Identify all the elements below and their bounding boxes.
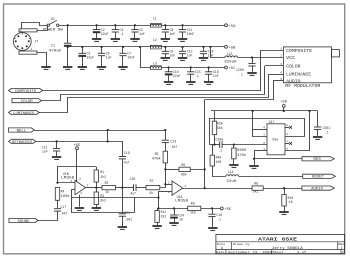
- net flag SOUND: [9, 218, 38, 224]
- junction C14: [202, 46, 204, 48]
- capacitor C14 1nF: [200, 51, 207, 53]
- wire rail1 left: [59, 25, 150, 27]
- capacitor C301 .1: [314, 127, 321, 129]
- junction R10: [283, 187, 285, 189]
- svg-text:.1: .1: [120, 32, 124, 36]
- wire riser to bias line: [134, 198, 136, 214]
- wire to RF pin3: [265, 65, 284, 67]
- svg-text:U17: U17: [269, 120, 275, 124]
- junction C3: [81, 46, 83, 48]
- wire C200 lower lead: [252, 66, 254, 72]
- wire 555 pin6 loop: [210, 118, 305, 120]
- capacitor C11 10nF: [179, 30, 186, 32]
- capacitor C19 4u7: [119, 157, 126, 159]
- svg-text:AUDIO: AUDIO: [311, 188, 323, 192]
- svg-text:COLOR: COLOR: [286, 65, 301, 70]
- wire to U1B pin6: [58, 182, 76, 184]
- junction C13: [181, 46, 183, 48]
- ground (C24): [169, 223, 178, 225]
- wire C2 lower lead: [96, 32, 98, 38]
- svg-text:4u7: 4u7: [130, 192, 136, 196]
- wire to U1B pin5: [71, 189, 75, 191]
- wire C4 lower lead: [115, 32, 117, 38]
- svg-text:1nF: 1nF: [139, 32, 145, 36]
- svg-text:1k5: 1k5: [190, 210, 196, 214]
- svg-text:C200: C200: [236, 68, 244, 72]
- junction pin3 drop/bias rail: [157, 207, 159, 209]
- wire C10 lower lead: [168, 74, 170, 82]
- svg-text:5k1: 5k1: [253, 190, 259, 194]
- wire R300 top lead: [233, 145, 235, 148]
- ground (C8): [161, 39, 170, 41]
- wire R11 bottom lead: [157, 222, 159, 225]
- svg-text:.047: .047: [60, 212, 68, 216]
- wire U1A pin3 drop: [158, 191, 160, 208]
- ground (C21): [118, 227, 127, 229]
- inductor L2: [150, 45, 161, 49]
- svg-text:AUDIO: AUDIO: [286, 80, 301, 85]
- svg-text:R10: R10: [288, 196, 294, 200]
- svg-text:8 of: 8 of: [297, 250, 306, 254]
- wire C24 upper lead: [174, 208, 176, 214]
- junction BELL tie: [107, 129, 109, 131]
- capacitor C9 1nF: [162, 51, 169, 53]
- svg-text:COMPOSITE: COMPOSITE: [15, 90, 37, 94]
- svg-text:2: 2: [168, 181, 170, 184]
- svg-text:R6: R6: [181, 163, 185, 167]
- junction C4: [114, 24, 116, 26]
- wire bias rail left: [157, 208, 188, 210]
- ground (C200): [247, 73, 256, 75]
- wire C5 upper lead: [134, 25, 136, 29]
- svg-text:1nF: 1nF: [170, 32, 176, 36]
- wire C301 upper lead: [317, 111, 319, 127]
- wire audio riser: [204, 100, 206, 170]
- wire C15 upper lead: [190, 68, 192, 72]
- svg-text:LUMINANCE: LUMINANCE: [13, 112, 35, 116]
- wire node to C20: [122, 187, 133, 189]
- resistor R7 2k: [146, 185, 160, 189]
- wire C14 lower lead: [203, 54, 205, 57]
- junction BELL/C23: [164, 129, 166, 131]
- wire C8 lower lead: [165, 32, 167, 38]
- resistor R40 100: [210, 155, 214, 166]
- wire rail3 right: [161, 67, 224, 69]
- wire R7 to U1A pin2: [160, 184, 166, 187]
- wire C11 upper lead: [182, 25, 184, 29]
- svg-text:R7: R7: [150, 179, 154, 183]
- wire C3 lower lead: [82, 56, 84, 67]
- wire +5E to U1B pin8: [76, 150, 78, 182]
- wire C12 upper lead: [56, 141, 58, 148]
- junction C6: [100, 46, 102, 48]
- wire C6 upper lead: [101, 47, 103, 53]
- svg-text:1uF: 1uF: [106, 56, 112, 60]
- wire R10 bottom lead: [284, 206, 286, 212]
- svg-text:Date: Date: [216, 251, 224, 254]
- capacitor C1 470uF: [64, 43, 72, 46]
- ground (C2): [92, 39, 101, 41]
- svg-text:Drawn by: Drawn by: [233, 242, 250, 246]
- wire R3 bottom lead: [96, 205, 98, 208]
- svg-text:820uH: 820uH: [224, 60, 236, 64]
- wire 555 pin1 to ground: [254, 151, 256, 165]
- svg-text:C301: C301: [323, 126, 331, 130]
- wire C17 to SOUND: [38, 211, 57, 220]
- svg-text:L1: L1: [153, 16, 157, 20]
- power node +5E (U1B): [74, 144, 82, 150]
- op-amp U1B triangle: [75, 180, 86, 194]
- power node +5C: [225, 66, 237, 71]
- resistor R5 470k: [163, 151, 167, 163]
- svg-text:R1: R1: [100, 170, 104, 174]
- svg-text:.047: .047: [170, 145, 178, 149]
- wire node to C300: [210, 144, 220, 146]
- junction pin1/RES: [253, 158, 255, 160]
- wire rail2 right: [161, 46, 224, 48]
- wire R8 to AUDIO flag: [263, 188, 302, 190]
- svg-text:1: 1: [184, 185, 186, 188]
- svg-text:22uH: 22uH: [226, 179, 236, 183]
- ground (C16): [208, 228, 217, 230]
- wire node to C21: [122, 188, 124, 214]
- junction C5: [134, 24, 136, 26]
- svg-text:+5E: +5E: [224, 208, 232, 212]
- wire BELL/KEYBAUDIO tie: [107, 130, 109, 141]
- svg-text:COLOR: COLOR: [21, 100, 34, 104]
- svg-text:ATARI 65XE: ATARI 65XE: [258, 239, 298, 243]
- power node +5E (bias): [220, 207, 232, 212]
- wire C3 upper lead: [82, 47, 84, 53]
- svg-text:LUMINANCE: LUMINANCE: [286, 73, 311, 78]
- wire BELL line: [34, 130, 165, 132]
- svg-text:Sheet: Sheet: [273, 250, 284, 254]
- svg-text:100: 100: [216, 160, 222, 164]
- svg-text:100k: 100k: [61, 194, 70, 198]
- svg-text:.1: .1: [239, 73, 243, 77]
- junction VCC/C200: [251, 56, 253, 58]
- svg-text:L3: L3: [153, 61, 157, 65]
- wire C21 lower lead: [122, 216, 124, 226]
- wire 555 pin8 to rail: [285, 111, 310, 151]
- switch S1 POWER SW: [47, 20, 59, 26]
- wire R1 bottom lead: [96, 182, 98, 188]
- junction rail2/VCC drop: [209, 46, 211, 48]
- wire 555 pin1: [254, 150, 267, 152]
- capacitor C8 1nF: [162, 30, 169, 32]
- svg-text:56k: 56k: [217, 126, 223, 130]
- wire C200 upper lead: [252, 58, 254, 64]
- resistor R39 56k: [212, 121, 216, 134]
- svg-text:C17: C17: [60, 205, 66, 209]
- capacitor C12 1uF: [53, 149, 60, 151]
- svg-text:1nF: 1nF: [187, 54, 193, 58]
- junction U1B output node: [95, 187, 97, 189]
- wire C20 to R7: [136, 187, 146, 189]
- capacitor C13 1nF: [179, 51, 186, 53]
- wire to RF pin1: [260, 50, 283, 52]
- svg-text:2: 2: [280, 55, 282, 58]
- capacitor C21 .001: [119, 214, 126, 216]
- junction C11: [181, 24, 183, 26]
- no-connect pin7: [289, 142, 292, 145]
- junction KEYBAUDIO/C12: [56, 140, 58, 142]
- svg-text:1k: 1k: [105, 190, 109, 194]
- wire C301 lower lead: [317, 129, 319, 136]
- svg-text:R2: R2: [105, 181, 109, 185]
- svg-text:L13: L13: [227, 52, 233, 56]
- svg-text:+5A: +5A: [229, 25, 237, 29]
- wire C14 upper lead: [203, 47, 205, 51]
- svg-text:+5D: +5D: [280, 101, 288, 105]
- inductor L13: [225, 56, 238, 58]
- connector J7 pin 1 tab: [19, 29, 37, 32]
- svg-text:S1: S1: [51, 18, 55, 22]
- svg-text:10: 10: [179, 218, 183, 222]
- wire 555 pin3 tie: [253, 111, 268, 137]
- svg-text:C1: C1: [51, 45, 55, 49]
- wire COMPOSITE to RF pin1: [43, 50, 261, 90]
- wire R2 to node: [116, 187, 123, 189]
- wire U1A output: [183, 188, 205, 190]
- svg-text:RESET: RESET: [312, 176, 325, 180]
- svg-text:1: 1: [280, 47, 282, 50]
- wire R1 top lead: [96, 167, 98, 170]
- svg-text:6: 6: [286, 133, 288, 136]
- resistor R11 2k2: [155, 211, 159, 223]
- wire R40 top lead: [212, 145, 214, 156]
- wire LUMINANCE to RF pin4: [39, 74, 268, 112]
- wire C13 upper lead: [182, 47, 184, 51]
- junction R39/node: [213, 144, 215, 146]
- net flag COLOR: [12, 99, 41, 105]
- svg-text:22uF: 22uF: [87, 56, 95, 60]
- svg-text:RF MODULATOR: RF MODULATOR: [285, 85, 321, 89]
- svg-text:R300: R300: [237, 148, 246, 152]
- svg-text:8: 8: [286, 147, 288, 150]
- RF modulator U-box: [283, 47, 331, 83]
- svg-text:555: 555: [272, 138, 278, 142]
- svg-text:+5E: +5E: [74, 144, 82, 148]
- resistor R2 1k: [102, 185, 116, 189]
- ground (R300): [229, 165, 238, 167]
- ground (C3): [78, 67, 87, 69]
- svg-text:10nF: 10nF: [187, 32, 195, 36]
- junction KEYBAUDIO tie: [107, 140, 109, 142]
- wire 555 pin6 to loop: [285, 118, 305, 137]
- wire R39 bottom lead: [214, 135, 216, 145]
- junction C18: [208, 66, 210, 68]
- ground (R11): [152, 226, 161, 228]
- svg-text:2k: 2k: [149, 191, 153, 195]
- wire C5 lower lead: [134, 32, 136, 38]
- wire R39 top lead: [214, 111, 216, 121]
- junction C8: [164, 24, 166, 26]
- junction R5/R6 feedback: [164, 168, 166, 170]
- svg-text:L2: L2: [153, 38, 157, 42]
- wire to RES flag: [254, 158, 302, 160]
- inductor L3: [150, 66, 161, 70]
- ground (555 pin1): [249, 166, 258, 168]
- wire C9 upper lead: [165, 47, 167, 51]
- svg-text:470k: 470k: [152, 157, 161, 161]
- wire from J7 pin1 loop: [22, 23, 48, 29]
- wire KEYBAUDIO to C19: [108, 142, 123, 157]
- resistor R6 68k: [179, 167, 190, 171]
- ground (J7 pin2): [41, 67, 50, 69]
- svg-text:C19: C19: [124, 151, 130, 155]
- ground (C12): [52, 157, 61, 159]
- junction C7: [122, 46, 124, 48]
- wire audio to RF pin5: [205, 81, 274, 100]
- wire from J7 pin1 to switch: [37, 25, 48, 30]
- wire R10 top lead: [284, 188, 286, 194]
- svg-text:.1: .1: [195, 74, 199, 78]
- net flag BELL: [9, 128, 35, 133]
- wire R300 bottom lead: [233, 159, 235, 164]
- wire C16 lower lead: [212, 217, 214, 227]
- wire L14 to RESET flag: [239, 176, 303, 178]
- wire C16 upper lead: [212, 208, 214, 213]
- capacitor C24 10: [170, 215, 178, 218]
- wire 555 pin7 stub: [285, 143, 289, 145]
- svg-text:A: A: [221, 246, 223, 250]
- wire C24 lower lead: [174, 218, 176, 222]
- svg-text:C23: C23: [170, 139, 176, 143]
- svg-text:LM358: LM358: [175, 199, 188, 203]
- ground (C11): [178, 39, 187, 41]
- svg-text:R8: R8: [254, 181, 258, 185]
- ground (C4): [111, 39, 120, 41]
- svg-text:1nF: 1nF: [170, 54, 176, 58]
- op-amp U1A triangle: [172, 181, 183, 195]
- svg-text:POWER SW: POWER SW: [43, 28, 63, 32]
- svg-text:.1: .1: [217, 217, 221, 221]
- svg-text:BELL: BELL: [17, 129, 27, 133]
- connector J7 (DIN power jack): [13, 33, 31, 51]
- junction U1B pin6 node: [56, 182, 58, 184]
- svg-text:9: 9: [342, 251, 344, 254]
- svg-text:7: 7: [87, 184, 89, 187]
- wire to U1A pin2: [165, 184, 172, 186]
- junction rail/pin8 riser: [308, 110, 310, 112]
- wire feedback right: [190, 170, 204, 189]
- svg-text:C16: C16: [216, 213, 222, 217]
- capacitor C4 .1: [112, 30, 119, 32]
- capacitor C6 1uF: [98, 53, 105, 55]
- RF output tab: [332, 50, 340, 57]
- wire L13 to RF modulator VCC: [238, 57, 284, 59]
- wire R5 to U1A pin2 node: [165, 163, 167, 184]
- wire from J7 pin2 to ground: [37, 53, 47, 67]
- wire C300 to 555 pin2: [222, 144, 267, 146]
- IC U17 555 timer: [267, 124, 285, 155]
- svg-text:2k2: 2k2: [100, 175, 106, 179]
- svg-text:.001: .001: [125, 217, 133, 221]
- svg-text:SOUND: SOUND: [18, 220, 30, 224]
- svg-text:R40: R40: [216, 155, 222, 159]
- junction rail1/C1: [67, 24, 69, 26]
- junction C16/bias rail: [211, 207, 213, 209]
- junction C1 column / rail2: [67, 46, 69, 48]
- capacitor C18 1nF: [205, 72, 212, 74]
- svg-text:R11: R11: [161, 210, 167, 214]
- wire C4 upper lead: [115, 25, 117, 29]
- wire R40 to L14: [213, 166, 226, 177]
- wire C23 to R5: [165, 143, 167, 152]
- junction C24/bias rail: [173, 207, 175, 209]
- wire C19 to node: [122, 159, 124, 188]
- wire bias line: [71, 197, 158, 199]
- ground (C9): [161, 58, 170, 60]
- capacitor C16 .1: [208, 214, 215, 216]
- svg-text:7: 7: [286, 140, 288, 143]
- ground (C301): [313, 137, 322, 139]
- resistor R9 1k5: [188, 206, 201, 210]
- wire R3 top lead: [96, 188, 98, 192]
- junction R2/C19/C20/C21: [121, 187, 123, 189]
- svg-text:4: 4: [80, 192, 82, 195]
- capacitor C300 .1: [220, 141, 222, 148]
- svg-text:R4: R4: [61, 189, 65, 193]
- inductor L1: [150, 24, 161, 28]
- wire C1 column lower: [67, 46, 69, 67]
- svg-text:C20: C20: [130, 177, 136, 181]
- ground (C14): [199, 58, 208, 60]
- svg-text:22uF: 22uF: [101, 32, 109, 36]
- power node +5A: [225, 24, 237, 29]
- junction rail2/riser: [139, 46, 141, 48]
- wire riser rail2 to rail3: [141, 47, 151, 68]
- svg-text:22uF: 22uF: [173, 74, 181, 78]
- svg-text:5: 5: [286, 124, 288, 127]
- capacitor C3 22uF: [79, 53, 87, 56]
- svg-text:.1: .1: [325, 131, 329, 135]
- capacitor C10 22uF: [165, 72, 173, 75]
- capacitor C2 22uF: [93, 30, 101, 33]
- ground (C7): [118, 67, 127, 69]
- junction C15: [190, 66, 192, 68]
- svg-text:2k2: 2k2: [161, 215, 167, 219]
- junction output/audio riser: [204, 187, 206, 189]
- net flag KEYBAUDIO: [9, 139, 36, 145]
- capacitor C15 .1: [187, 72, 194, 74]
- connector J7 pin 2 tab: [19, 51, 37, 54]
- svg-text:+5B: +5B: [229, 46, 237, 50]
- wire C15 lower lead: [190, 74, 192, 82]
- svg-text:1: 1: [341, 246, 343, 250]
- wire rail1 right: [161, 25, 224, 27]
- svg-text:6k2: 6k2: [100, 199, 106, 203]
- ground (C13): [178, 58, 187, 60]
- svg-text:1nF: 1nF: [213, 74, 219, 78]
- ground (C10): [164, 82, 173, 84]
- junction rail/pin4 drop: [252, 110, 254, 112]
- net flag LUMINANCE: [9, 110, 40, 116]
- svg-text:470k: 470k: [237, 153, 246, 157]
- ground (C18): [204, 82, 213, 84]
- wire C11 lower lead: [182, 32, 184, 38]
- svg-text:KEYBAUDIO: KEYBAUDIO: [12, 141, 32, 145]
- svg-text:R5: R5: [155, 152, 159, 156]
- resistor R3 6k2: [94, 192, 98, 205]
- wire C12 lower lead: [56, 151, 58, 156]
- wire C13 lower lead: [182, 54, 184, 57]
- wire C18 upper lead: [208, 68, 210, 72]
- capacitor C23 .047: [162, 140, 169, 142]
- wire output to R8: [205, 188, 252, 190]
- wire to U1A pin3: [159, 191, 173, 193]
